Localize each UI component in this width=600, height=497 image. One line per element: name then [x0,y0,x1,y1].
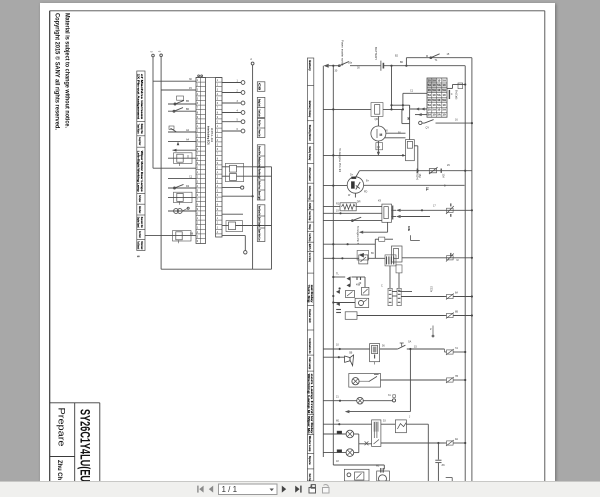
svg-text:86: 86 [371,252,374,255]
svg-text:M1: M1 [336,420,340,423]
svg-text:7B: 7B [455,375,458,378]
svg-text:7A: 7A [455,347,458,350]
svg-text:5A: 5A [442,98,446,102]
svg-text:Wiper Motor Light: Wiper Motor Light [257,169,261,180]
svg-text:2: 2 [217,176,219,179]
svg-text:5A: 5A [428,103,432,107]
wire bus to horn [323,356,344,358]
svg-text:9: 9 [217,162,219,165]
svg-text:Starting Motor: Starting Motor [308,125,312,142]
flasher unit box [355,298,369,307]
title block inner divider [74,403,76,481]
wire to turn diodes [333,276,345,278]
svg-text:29(D+): 29(D+) [416,172,420,180]
wiper motor box [372,420,381,447]
svg-text:Water Temp Sensor: Water Temp Sensor [138,195,142,202]
wire preheat row to far bus [436,122,472,124]
svg-text:5A: 5A [437,83,441,87]
svg-text:D+: D+ [350,174,354,177]
wire riser 391 [391,66,393,110]
svg-text:ZK: ZK [442,463,446,467]
wire C to node S3 [222,195,253,197]
svg-text:4: 4 [217,231,219,234]
svg-text:6451-63: 6451-63 [210,128,214,143]
svg-text:Relay Sw: Relay Sw [140,124,144,134]
relay K3 / fuel solenoid driver [145,235,196,237]
washer control box [344,469,369,481]
wire turn out right [401,296,444,298]
svg-text:2: 2 [197,84,199,87]
drawing frame top border [50,10,545,12]
svg-text:5A: 5A [432,98,436,102]
ECU connector block C body [216,78,222,238]
wire right bus vertical ACC [464,66,466,481]
relay K1 [168,157,196,159]
fuse-arrow F10 [447,294,454,298]
svg-text:J: J [409,416,411,419]
inline fuse bar b [440,169,442,173]
wire intermittent out [406,423,428,425]
svg-text:10A: 10A [442,174,445,179]
block B top terminal b [201,75,203,77]
svg-text:SY26C1Y4LU(EU: SY26C1Y4LU(EU [78,409,93,482]
wire riser 410 into safety relay [409,105,411,139]
svg-text:8: 8 [217,111,219,114]
svg-text:Z: Z [430,328,432,331]
svg-text:FD: FD [364,191,368,194]
wire relay down [387,222,389,232]
svg-text:5: 5 [197,236,199,239]
round terminal T5 [241,120,245,124]
svg-text:Engine Speed: Engine Speed [136,217,140,228]
wire alternator W down [354,193,356,197]
wire to toggle [380,348,398,350]
wire S1 to ECU pin row [153,167,196,169]
relay pin strip [392,206,394,220]
svg-text:1 / 1: 1 / 1 [222,485,238,494]
engine stub label [409,235,411,240]
svg-text:5A: 5A [432,108,436,112]
wire far right bus vertical B+ [471,58,473,481]
round terminal T3 [241,101,245,105]
svg-text:C8: C8 [257,83,261,91]
svg-text:Fuel Level Sensor: Fuel Level Sensor [138,206,142,213]
svg-text:Prepare: Prepare [56,408,67,447]
svg-text:6: 6 [197,102,199,105]
relay K4 [230,165,237,172]
connector mark cluster [385,255,396,266]
title block top line [50,402,100,404]
round terminal T2 [241,91,245,95]
sensor SR1 angled [171,128,177,132]
svg-text:3: 3 [217,88,219,91]
svg-text:C: C [381,285,383,288]
svg-text:DR: DR [357,200,361,204]
svg-text:5: 5 [136,256,140,258]
svg-text:56: 56 [382,345,385,348]
svg-text:10: 10 [442,113,446,117]
svg-text:2: 2 [197,176,199,179]
wire relay QD to node [383,108,403,110]
svg-text:7: 7 [217,199,219,202]
svg-text:Alternator: Alternator [308,167,312,182]
round terminal T1 [241,81,245,85]
svg-text:4: 4 [217,185,219,188]
svg-text:9: 9 [197,116,199,119]
wire row 5 to B [168,131,196,133]
svg-text:5: 5 [158,51,162,53]
wire lamp link vertical [358,434,360,453]
diode pair V1 [347,277,351,281]
wire C mid stub [222,213,243,215]
small sensor pair [432,326,434,335]
svg-text:5A: 5A [442,88,446,92]
glow plug resistor DR [340,203,356,211]
svg-text:C02a: C02a [430,286,433,293]
fuse-arrow F12 [447,350,454,354]
svg-text:0: 0 [217,213,219,216]
svg-text:B0: B0 [400,61,404,64]
up arrow mark row 6 [177,142,180,146]
svg-text:8B: 8B [455,311,458,314]
wire to fuse box row 3 [415,114,427,116]
svg-text:2: 2 [197,222,199,225]
wire relay out 1 [392,209,397,211]
svg-text:6: 6 [197,194,199,197]
svg-text:Battery: Battery [308,60,312,71]
drawing frame left border [49,11,51,481]
svg-text:Wiper Motor Rear Lamps: Wiper Motor Rear Lamps [140,151,144,192]
svg-text:1: 1 [197,125,199,128]
svg-text:BATTERY: BATTERY [374,47,378,60]
aux relay small [346,291,355,298]
toolbar next-view icon (disabled) [323,485,330,493]
svg-text:21: 21 [336,396,339,399]
turn connector strips [388,288,392,305]
ECU relay [392,246,403,262]
svg-text:ECU: ECU [308,244,312,251]
relay K2 [168,196,196,198]
wire lamp branch to wiper [359,443,372,445]
preheat switch blade [323,220,382,222]
svg-text:Gas Relay: Gas Relay [308,211,312,221]
washer pins [380,468,382,473]
svg-text:10: 10 [336,344,339,347]
svg-text:7: 7 [217,107,219,110]
tick marks cluster [356,277,358,280]
round terminal T4 [241,111,245,115]
svg-text:1: 1 [217,171,219,174]
svg-text:C: C [451,93,453,96]
open terminal row [222,187,241,189]
wire bus to flasher [333,302,355,304]
spare fuse bars [448,90,450,99]
svg-text:Fuel Solenoid: Fuel Solenoid [136,241,140,249]
svg-text:5: 5 [217,144,219,147]
wire bus to wiper motor [323,423,371,425]
svg-text:8: 8 [197,203,199,206]
diode box [357,251,369,261]
svg-text:8: 8 [217,157,219,160]
svg-text:10: 10 [428,78,432,82]
relay box lower [345,312,357,320]
svg-text:2: 2 [409,106,411,109]
terminal circle node S1 [152,54,155,57]
wire glow out long [401,209,472,211]
svg-text:Gauge Power: Gauge Power [138,137,142,145]
svg-text:1: 1 [217,217,219,220]
svg-text:SA: SA [408,341,412,344]
wire C row 4 to terminal [222,112,241,114]
svg-text:5A: 5A [437,93,441,97]
wire D+ long to right bus [360,170,472,172]
svg-text:10: 10 [432,83,436,87]
wire vertical long node S3 [252,65,254,269]
svg-text:2: 2 [217,222,219,225]
svg-text:9: 9 [217,116,219,119]
ECU outline top link [196,77,222,79]
svg-text:1: 1 [217,79,219,82]
viewer toolbar [0,481,600,497]
svg-text:C1: C1 [410,90,414,93]
svg-text:5A: 5A [432,78,436,82]
wire flasher out long [357,315,445,317]
svg-text:5A: 5A [437,103,441,107]
power master switch blade [339,62,349,66]
svg-text:Material is subject to change: Material is subject to change without no… [64,13,71,128]
svg-text:QD: QD [375,118,379,121]
svg-text:10: 10 [428,108,432,112]
svg-text:SB: SB [349,352,353,355]
wire dome lamp to terminal [363,400,392,402]
wire ECU relay out to right bus [402,257,472,259]
switch SW3 [168,187,196,189]
inline fuse-arrow on D+ wire [429,169,436,173]
fuse-arrow F11 [447,313,454,317]
capacitor ZK on riser 438 [437,443,439,460]
svg-text:6: 6 [217,194,219,197]
svg-text:Cab Lamp: Cab Lamp [308,357,312,369]
svg-text:10: 10 [432,93,436,97]
svg-text:Travel Speed Sw: Travel Speed Sw [257,206,261,216]
svg-text:0: 0 [197,121,199,124]
svg-text:B+(Cab): B+(Cab) [455,90,458,100]
svg-text:7: 7 [197,199,199,202]
svg-text:Horn Relay: Horn Relay [308,253,312,263]
wire motor to ground arrow [377,141,379,152]
wire vertical from S2 [160,57,162,270]
wire riser 403 upper [402,93,404,109]
fuse-arrow F13 [447,378,454,382]
svg-text:Power Sw: Power Sw [257,130,261,137]
svg-text:16: 16 [455,119,458,122]
diode mark V3 [336,302,339,306]
svg-text:Working Lamp Rear: Working Lamp Rear [257,157,261,167]
ECU connector block B body [196,78,206,244]
wire bus to relay pin [323,212,382,214]
svg-text:3: 3 [197,134,199,137]
svg-text:7: 7 [217,153,219,156]
svg-text:Travel Alarm: Travel Alarm [136,124,140,134]
connector arrows into fuse box [415,108,419,111]
svg-text:Stop: Stop [308,224,312,230]
small bar marks left cluster [336,309,341,311]
fuse box internal grid [427,78,447,117]
wire relay out 2 [392,216,397,218]
svg-text:Pilot Valve: Pilot Valve [257,120,261,127]
title block cell divider [50,456,75,458]
round terminal T6 [241,129,245,133]
toolbar next-page button [282,486,286,493]
svg-text:1L: 1L [425,187,429,191]
svg-text:Boom Light: Boom Light [257,191,261,200]
wire riser 418 [417,146,419,171]
wire row 1 to B [153,80,196,82]
svg-text:M: M [426,55,428,58]
wire battery to right bus [384,65,465,67]
wire riser 428 [427,424,429,481]
wire diode pair to strips [352,276,366,278]
svg-text:5A: 5A [428,83,432,87]
wire branch up to key row [405,58,407,66]
svg-text:9: 9 [197,208,199,211]
svg-text:Copyright 2015 © SANY all righ: Copyright 2015 © SANY all rights reserve… [54,13,61,130]
wire riser 375 [374,239,376,258]
svg-text:0: 0 [197,213,199,216]
wire row 6 to B [168,141,196,143]
dome lamp [357,397,364,404]
wire cab lamp out [381,379,445,381]
toolbar first-page button [197,486,203,493]
washer terminal [347,473,351,477]
wire riser 410 [409,349,411,412]
washer lamp 2 [323,452,346,454]
svg-text:Left+Right Working Lamp: Left+Right Working Lamp [136,151,140,192]
svg-text:Flasher Unit: Flasher Unit [308,309,312,322]
svg-text:9: 9 [217,208,219,211]
svg-text:Sensor Sw: Sensor Sw [140,217,144,228]
wire riser washer [383,465,385,469]
svg-text:Safety Relay: Safety Relay [308,146,312,160]
svg-text:Battery Relay: Battery Relay [308,101,312,118]
svg-text:1: 1 [197,217,199,220]
wire U loop to relay [401,109,403,123]
svg-text:To Engine Pin 13: To Engine Pin 13 [338,148,342,173]
wire bottom washer feed [333,464,384,466]
cab lamp box with switch [349,374,381,388]
wire between strips 2 [392,295,397,297]
svg-text:B+: B+ [366,180,370,183]
svg-text:10: 10 [437,88,441,92]
svg-text:5A: 5A [428,113,432,117]
svg-text:6: 6 [197,240,199,243]
combination switch box [370,344,380,362]
key switch blade T1-M [431,54,440,58]
wire alternator D+ diagonal [356,171,360,178]
svg-text:5: 5 [217,190,219,193]
svg-text:M: M [457,259,459,262]
svg-text:10: 10 [442,103,446,107]
glow plug relay block [382,204,392,222]
X mark b [365,441,369,445]
svg-text:5A: 5A [428,93,432,97]
svg-text:8: 8 [197,111,199,114]
arrow return wire [349,411,411,413]
wire horn relay to conn [368,257,385,259]
fuse F-main [458,83,463,89]
svg-text:50: 50 [407,117,411,121]
svg-text:Spare Valve Line: Spare Valve Line [257,229,261,241]
svg-text:4: 4 [197,231,199,234]
battery GB plates [380,61,382,71]
svg-text:15: 15 [414,346,417,349]
wire to fuse box row 1 [403,92,427,94]
wire wiper to intermittent [381,423,396,425]
fuse-arrow F14 [447,441,454,445]
svg-text:7: 7 [197,153,199,156]
wire wiper low out [381,442,445,444]
svg-text:31: 31 [388,394,391,397]
svg-text:Spare: Spare [308,456,312,465]
svg-text:10: 10 [428,88,432,92]
svg-text:5: 5 [197,144,199,147]
svg-text:R2: R2 [336,203,340,206]
wire row 4 to B [168,110,196,112]
wire C row 2 to terminal [222,92,241,94]
svg-text:30: 30 [335,70,338,73]
svg-text:9A: 9A [455,438,458,441]
starting motor terminal box [376,143,383,150]
wire C row 3 to terminal [222,102,241,104]
wire bus to horn relay [323,257,359,259]
svg-text:Washer Lamp: Washer Lamp [308,436,312,452]
junction bus 30 [332,65,334,67]
toolbar prev-page button [209,486,213,493]
svg-text:10: 10 [432,113,436,117]
svg-text:4: 4 [217,139,219,142]
toolbar page number combobox [219,484,278,495]
svg-text:Power master switch: Power master switch [341,40,345,66]
wire bus to safety relay coil [323,154,405,156]
wire alternator B+ to right bus [364,184,465,186]
wire secondary bus vertical 30 [332,66,334,465]
IO label column D cells [257,82,265,242]
svg-text:5A: 5A [442,108,446,112]
toolbar last-page button [295,486,301,493]
wire bus to resistor [323,206,340,208]
relay K5 [230,174,237,181]
ECU connector block C pin cell rungs [216,82,222,234]
svg-text:6: 6 [217,148,219,151]
svg-text:5: 5 [197,98,199,101]
svg-text:53: 53 [383,420,386,423]
washer lamp 1 [323,433,346,435]
drawing frame right border [544,11,546,481]
svg-text:6: 6 [217,102,219,105]
ECU connector block B pin cell rungs [196,78,206,244]
svg-text:18: 18 [336,460,339,463]
svg-text:5: 5 [197,190,199,193]
svg-text:10: 10 [428,98,432,102]
preheat start switch [419,121,422,124]
system label column E cells [307,58,313,481]
svg-text:K9: K9 [378,200,382,203]
svg-text:0: 0 [217,167,219,170]
terminal tag [393,395,396,398]
svg-text:nal Relay: nal Relay [310,285,314,303]
svg-text:T1: T1 [435,59,439,62]
alternator G circle [347,177,363,193]
